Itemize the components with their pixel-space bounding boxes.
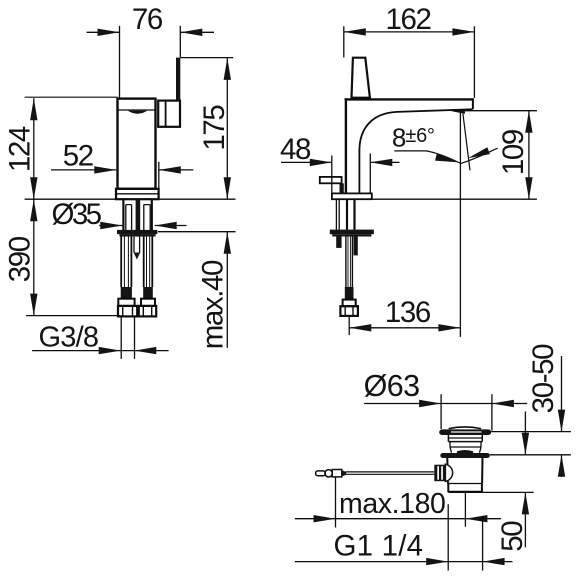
side view: short hose stubs [336,237,358,256]
side view: drain pull knob and stem [320,177,344,194]
svg-text:50: 50 [496,521,529,552]
dimension angle 8±6° [392,123,498,166]
side view: hose connector step [343,300,356,307]
svg-text:136: 136 [385,296,431,329]
front view: mounting surface line [25,198,236,200]
drain view: drain flange (black) [440,453,490,458]
front view: hose crimp sleeves (black) [121,287,153,299]
dimension G3/8 [32,321,169,354]
svg-text:max.180: max.180 [339,488,446,520]
svg-text:175: 175 [198,105,231,151]
drain view: lever clevis and ball socket [434,464,452,481]
side view: flanged mounting nut [330,230,374,237]
dimension 52 [51,139,193,189]
svg-text:52: 52 [63,139,93,172]
front view: left supply hose [121,237,131,288]
svg-text:390: 390 [4,236,37,282]
svg-text:30-50: 30-50 [527,344,560,413]
svg-text:G3/8: G3/8 [39,321,99,353]
side view: aerator wedge (black) [451,109,465,114]
side view: handle lever [352,58,370,98]
side view: mounting surface line [372,198,537,200]
dimension 109 [454,111,537,200]
front view: pull rod (center, black) [134,199,141,259]
svg-text:±6°: ±6° [405,125,434,147]
front view: right supply hose [144,237,153,288]
svg-text:8: 8 [392,123,406,153]
side view: shank tube [347,199,355,229]
dimension 124 [3,97,117,199]
svg-text:162: 162 [385,3,430,36]
side view: front hose lines [336,199,339,229]
svg-text:G1 1/4: G1 1/4 [334,530,424,563]
front view: supply tube tops inside shank [126,205,150,230]
dimension G1 1/4 [295,504,513,570]
side view: hose centerline below nut [348,316,350,335]
front view: handle blade [176,58,180,101]
dimension 50 [465,412,534,552]
front view: hose connector steps [118,299,155,306]
dimension 30-50 [490,344,571,477]
side view: body front edge [345,98,347,193]
front view: faucet body outline [118,99,156,189]
side view: body top bar and spout [345,98,473,193]
dimension max.40 [158,232,236,350]
svg-text:48: 48 [280,133,311,166]
front view: handle lever lower block [158,101,180,127]
side view: base plate [332,193,372,199]
front view: base flange [116,189,159,199]
svg-text:76: 76 [132,3,163,36]
front view: flanged mounting nut [117,230,157,237]
dimension 162 [344,3,475,98]
svg-text:Ø35: Ø35 [52,198,102,231]
drain view: cap skirt [448,435,482,453]
drain view: cap rim (black) [439,429,491,435]
dimension 390 [4,199,121,315]
svg-text:109: 109 [497,129,530,175]
front view: aerator line and black arc [119,110,155,114]
front view: G3/8 thread stub lines [121,316,134,359]
front view: threaded shank walls [123,199,151,230]
side view: hose hex nut [340,306,358,316]
drain view: drain body [447,458,482,492]
front view: hose hex nuts [118,306,156,317]
svg-text:124: 124 [3,126,36,172]
dimension Ø35 [52,198,187,231]
dimension 48 [280,133,400,194]
dimension 76 [87,3,214,98]
side view: main hose [346,237,353,287]
dimension 136 [349,296,460,331]
drain view: lever rod [316,470,435,477]
dimension Ø63 [364,369,528,431]
dimension 175 [180,58,233,200]
svg-text:Ø63: Ø63 [364,369,420,403]
side view: stream centerline [459,112,461,337]
side view: stream angle leg (8 deg) [463,114,470,171]
dimension max.180 [295,477,501,528]
svg-text:max.40: max.40 [197,260,230,349]
side view: hose crimp sleeve (black) [345,287,354,300]
drain view: plug cap dome [449,427,481,429]
drain view: plug seal lip (black) [457,450,473,453]
